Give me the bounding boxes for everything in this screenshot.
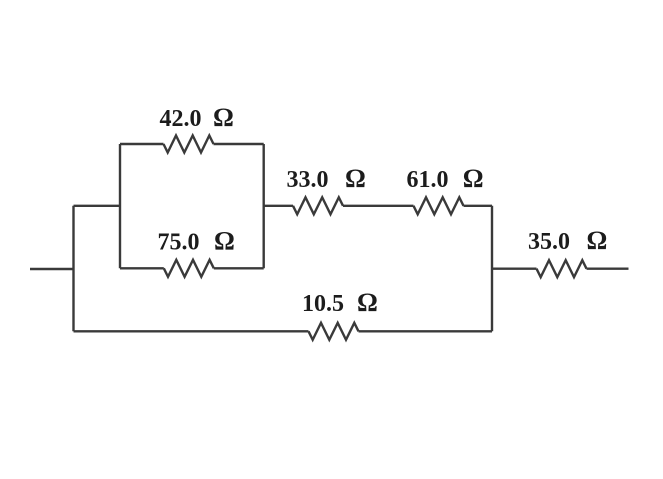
resistor R3 33.0 ohm (293, 197, 343, 214)
wire: output terminal (587, 268, 629, 270)
wire: parallel box right vertical (263, 144, 265, 268)
svg-text:75.0: 75.0 (158, 229, 200, 255)
wire: right vertical (491, 206, 493, 331)
resistor R4 61.0 ohm (414, 197, 464, 214)
wire: 42-ohm row right lead (214, 143, 264, 145)
wire: middle row lead into 33-ohm (264, 205, 293, 207)
svg-text:Ω: Ω (587, 226, 608, 255)
wire: parallel box left vertical (119, 144, 121, 268)
resistor R1 42.0 ohm (164, 136, 214, 153)
wire: 61-ohm to right vertical (464, 205, 493, 207)
svg-text:35.0: 35.0 (528, 229, 570, 255)
wire: bottom branch right lead (359, 330, 493, 332)
wire: 75-ohm row right lead (214, 267, 264, 269)
resistor R5 35.0 ohm (537, 260, 587, 277)
wire: 75-ohm row left lead (120, 267, 164, 269)
svg-text:Ω: Ω (463, 164, 484, 193)
wire: output row left lead (492, 268, 537, 270)
svg-text:Ω: Ω (213, 103, 234, 132)
svg-text:61.0: 61.0 (407, 167, 449, 193)
wire: 42-ohm row left lead (120, 143, 164, 145)
wire: outer left vertical (72, 206, 74, 331)
svg-text:Ω: Ω (345, 164, 366, 193)
wire: left input terminal (30, 268, 74, 270)
svg-text:33.0: 33.0 (287, 167, 329, 193)
wire: between 33-ohm and 61-ohm (343, 205, 414, 207)
wire: bottom branch left lead (74, 330, 309, 332)
resistor R6 10.5 ohm (309, 323, 359, 340)
resistor R2 75.0 ohm (164, 260, 214, 277)
svg-text:10.5: 10.5 (302, 291, 344, 317)
svg-text:Ω: Ω (214, 226, 235, 255)
wire: jog from outer left vertical to parallel box (74, 205, 121, 207)
svg-text:42.0: 42.0 (160, 106, 202, 132)
svg-text:Ω: Ω (357, 288, 378, 317)
